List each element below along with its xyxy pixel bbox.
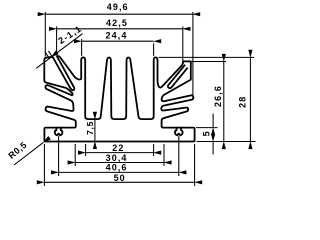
dim 42,5 xyxy=(57,28,183,30)
heatsink profile outline xyxy=(44,56,194,141)
dim 49,6 xyxy=(45,13,192,15)
svg-text:26,6: 26,6 xyxy=(213,85,223,107)
svg-text:49,6: 49,6 xyxy=(107,2,129,12)
dim 22 xyxy=(86,152,154,154)
ext line outer fin top (26,6) xyxy=(191,61,226,63)
svg-text:42,5: 42,5 xyxy=(106,18,128,28)
right groove keyhole xyxy=(175,128,183,136)
svg-text:R0,5: R0,5 xyxy=(6,140,29,161)
dim 50 xyxy=(44,181,194,183)
ext base top (5) xyxy=(196,127,218,129)
svg-text:7,5: 7,5 xyxy=(85,121,95,135)
dim 30,4 xyxy=(75,162,164,164)
dim 28 xyxy=(249,57,251,141)
svg-text:40,6: 40,6 xyxy=(106,163,128,173)
ext base bottom xyxy=(197,141,256,143)
svg-text:50: 50 xyxy=(114,173,126,183)
svg-text:28: 28 xyxy=(238,96,248,108)
dim 24,4 xyxy=(82,40,154,42)
dim 40,6 xyxy=(59,171,179,173)
svg-text:22: 22 xyxy=(112,143,124,153)
svg-text:5: 5 xyxy=(201,130,211,136)
left groove keyhole xyxy=(55,128,63,136)
ext line fin top (28) xyxy=(159,56,255,58)
dim 5 xyxy=(212,114,214,128)
svg-text:24,4: 24,4 xyxy=(106,30,128,40)
dim 7,5 xyxy=(94,119,96,141)
right wing slot xyxy=(168,65,187,88)
svg-text:30,4: 30,4 xyxy=(106,153,128,163)
dim 26,6 xyxy=(223,62,225,142)
